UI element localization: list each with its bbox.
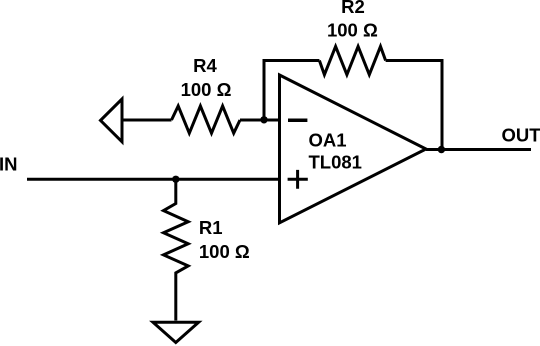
resistor R1 (164, 179, 189, 320)
svg-text:R2: R2 (341, 0, 365, 17)
wire output (426, 148, 531, 151)
op-amp plus pin mark (288, 170, 308, 189)
svg-text:TL081: TL081 (309, 152, 362, 173)
svg-text:100 Ω: 100 Ω (199, 241, 250, 262)
ground (153, 322, 199, 342)
node output junction (438, 146, 445, 153)
svg-text:R1: R1 (199, 217, 223, 238)
resistor R2 (319, 46, 385, 74)
op-amp U1 triangle (280, 75, 427, 223)
node inverting junction (260, 116, 267, 123)
wire feedback left vertical (264, 61, 319, 121)
wire IN line (27, 178, 280, 181)
wire R4 to op-amp minus (240, 119, 280, 122)
svg-text:100 Ω: 100 Ω (181, 79, 232, 100)
svg-text:R4: R4 (193, 55, 217, 76)
svg-text:IN: IN (0, 154, 18, 175)
wire feedback right (386, 61, 442, 150)
svg-text:100 Ω: 100 Ω (327, 20, 378, 41)
svg-text:OA1: OA1 (309, 130, 347, 151)
svg-text:OUT: OUT (502, 125, 540, 146)
input arrow terminal (101, 99, 123, 142)
wire arrow to R4 (122, 119, 172, 122)
node input junction (172, 176, 179, 183)
resistor R4 (172, 106, 241, 133)
op-amp minus pin mark (288, 119, 307, 123)
